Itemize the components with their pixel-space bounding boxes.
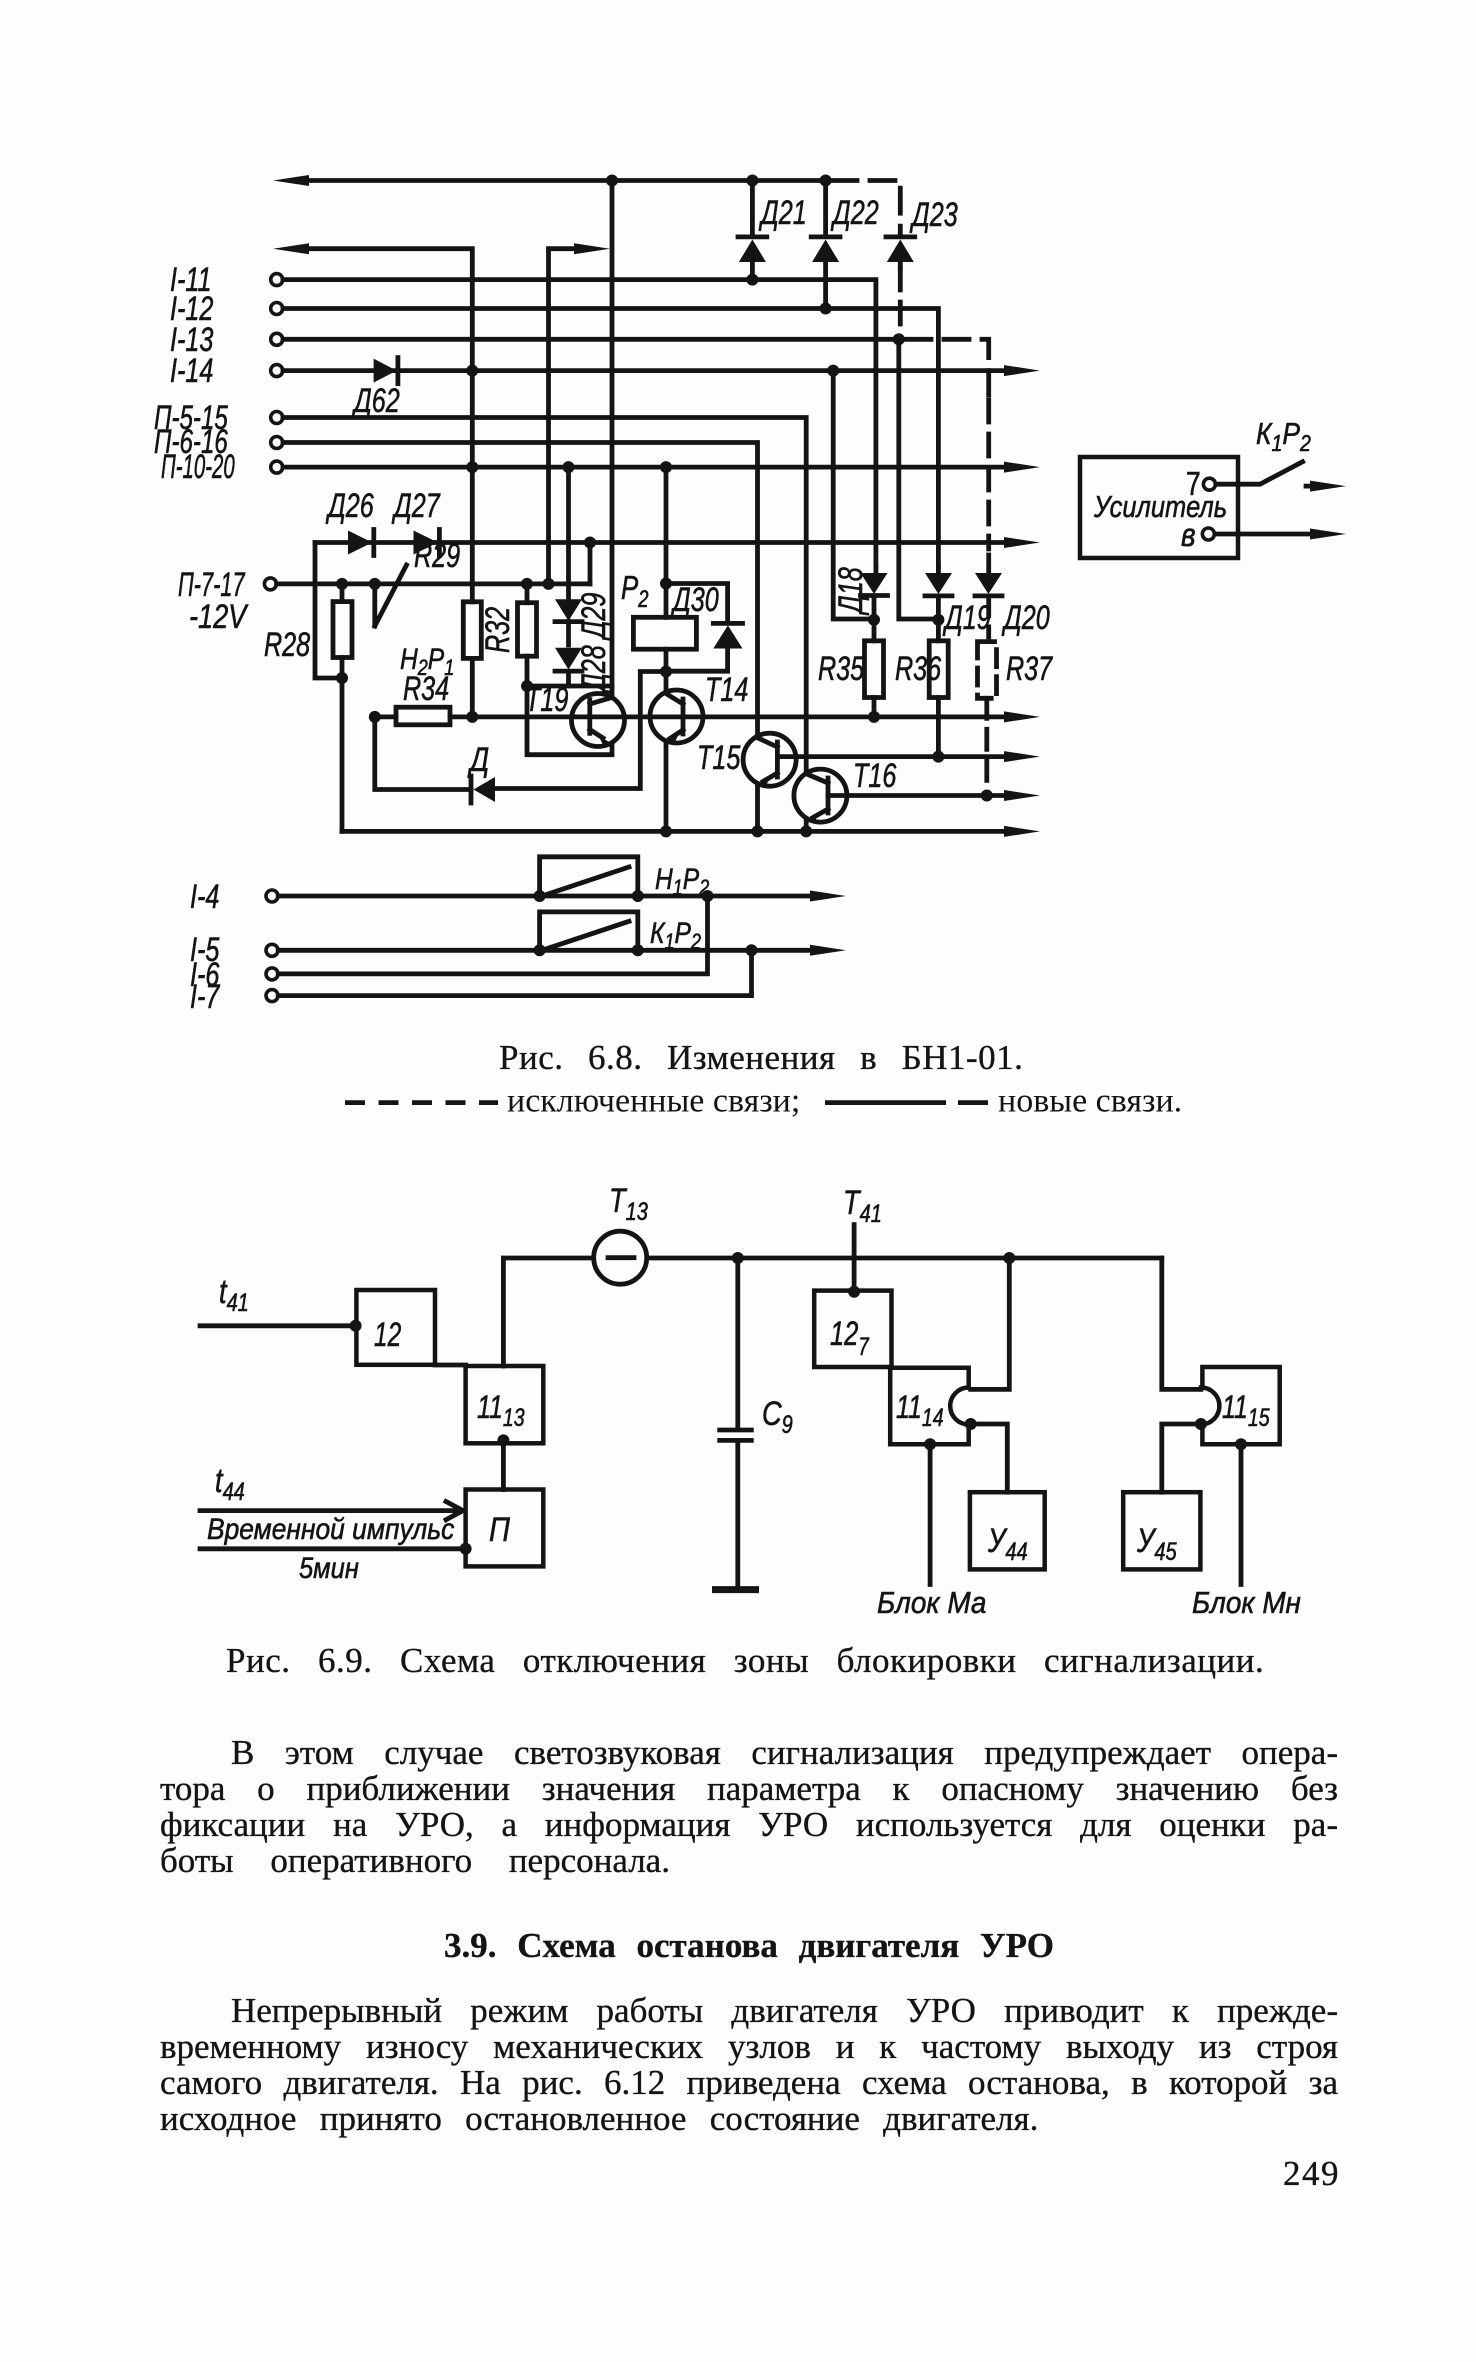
node top bus / D21 junction <box>746 175 758 187</box>
block Y44 <box>970 1492 1045 1569</box>
terminal P-7-17 <box>264 578 276 590</box>
switch blade H1P2 <box>545 867 629 895</box>
block 11-14 <box>890 1368 969 1444</box>
svg-text:I-7: I-7 <box>190 978 221 1016</box>
node P-7-17 / arrow column <box>543 578 555 590</box>
diode D23 (excluded link, dashed leads) <box>886 236 915 269</box>
legend solid sample (new links) <box>825 1100 946 1105</box>
transistor T19 <box>572 694 625 747</box>
page number <box>1283 2156 1340 2192</box>
svg-text:К1Р2: К1Р2 <box>1256 417 1311 456</box>
terminal I-6 <box>266 968 278 980</box>
node block 11-15 bottom <box>1235 1438 1247 1450</box>
node D19 bottom / R36 <box>932 614 944 626</box>
capacitor C9 <box>720 1264 752 1590</box>
svg-text:У45: У45 <box>1136 1521 1177 1565</box>
wire P-6-16 row to T15 collector column <box>283 443 758 735</box>
wire I-14 branch down to D18 bottom node <box>833 376 868 619</box>
terminal I-12 <box>271 303 283 315</box>
node I-12 / D22 <box>820 303 832 315</box>
terminal pin 7 <box>1203 478 1215 490</box>
svg-text:Блок Мн: Блок Мн <box>1192 1586 1301 1621</box>
node block 11-14 bottom <box>924 1438 936 1450</box>
node contact H1P2 right <box>632 890 644 902</box>
svg-text:У44: У44 <box>987 1521 1028 1565</box>
transistor T14 <box>650 690 703 743</box>
svg-text:t41: t41 <box>219 1272 249 1316</box>
wire P-7-17 row <box>277 582 590 587</box>
node base row / R34 left <box>369 711 381 723</box>
svg-text:-12V: -12V <box>189 597 249 636</box>
svg-text:R36: R36 <box>895 650 941 688</box>
left frame wire from D26 row down to R28 bottom <box>315 543 336 679</box>
wire to block Ma <box>928 1450 933 1585</box>
svg-text:127: 127 <box>830 1316 869 1361</box>
block 11-15 bubble <box>1201 1388 1220 1425</box>
svg-text:t44: t44 <box>215 1461 245 1505</box>
node R32 bottom <box>521 680 533 692</box>
switch H2P1 <box>375 565 407 626</box>
wire R28 bottom down to ground rail <box>340 684 345 831</box>
node bus / C9 <box>732 1252 744 1264</box>
svg-text:Р2: Р2 <box>621 570 649 613</box>
wire R32 bottom node to T19 collector column <box>533 684 612 689</box>
diode D28 <box>566 622 571 645</box>
svg-text:Д23: Д23 <box>909 196 958 234</box>
svg-text:R28: R28 <box>264 626 310 664</box>
svg-text:Временной импульс: Временной импульс <box>207 1511 454 1545</box>
terminal pin 8 <box>1202 528 1214 540</box>
diode D20 (dashed column) <box>986 555 991 571</box>
resistor R34 <box>396 707 450 725</box>
heading 3.9 <box>160 1928 1338 1964</box>
svg-text:1113: 1113 <box>477 1390 525 1431</box>
caption fig 6.9 <box>226 1643 1264 1679</box>
svg-text:Д19: Д19 <box>942 599 991 637</box>
wire T14 emitter to rail <box>664 741 669 825</box>
block 11-15 <box>1202 1367 1279 1444</box>
wire P2 column <box>664 473 669 617</box>
wire T15 collector row with right arrow <box>777 754 1006 759</box>
wire I-13 dashed branch to D20 column <box>906 339 989 395</box>
wire I-13 row solid part <box>283 337 899 342</box>
node time pulse at P block <box>460 1543 472 1555</box>
node contact K1P2 left <box>534 944 546 956</box>
wire T19 collector column from top bus <box>610 186 615 698</box>
svg-text:П-10-20: П-10-20 <box>161 448 235 486</box>
svg-text:Н2Р1: Н2Р1 <box>400 642 454 681</box>
wire T19 emitter loop <box>527 692 612 755</box>
wire block 12 to block 11-13 <box>435 1363 466 1368</box>
caption fig 6.8 <box>499 1040 1023 1076</box>
svg-text:К1Р2: К1Р2 <box>650 916 701 955</box>
node top bus / D22 junction <box>820 175 832 187</box>
node base row / R29 bottom <box>466 711 478 723</box>
wire I-6 row rising to I-4 output <box>278 902 707 974</box>
wire I-5 row with arrow <box>278 948 812 953</box>
svg-text:Д18: Д18 <box>832 567 870 616</box>
svg-text:Усилитель: Усилитель <box>1093 490 1227 525</box>
base row T19/T14 with right arrow <box>375 715 1006 720</box>
wire T16 emitter to rail <box>804 820 809 825</box>
wire 11-13 to P block <box>501 1443 506 1489</box>
node P2 bottom <box>660 666 672 678</box>
svg-text:Блок Ма: Блок Ма <box>877 1586 986 1621</box>
svg-text:С9: С9 <box>762 1394 793 1438</box>
svg-text:Д20: Д20 <box>1001 599 1050 637</box>
node P-10-20 / P2 column <box>660 461 672 473</box>
wire top bus with left arrow <box>307 178 826 183</box>
wire short right-arrow output from amplifier column <box>549 249 577 578</box>
diode D22 <box>811 181 840 309</box>
ground rail row with right arrow <box>342 829 1006 834</box>
arrowheads right side rows <box>1004 365 1040 376</box>
svg-text:Д: Д <box>467 740 489 779</box>
terminal P-6-16 <box>271 437 283 449</box>
diode D21 <box>738 181 767 280</box>
wire time pulse input <box>200 1546 466 1551</box>
wire I-4 row with arrow <box>278 894 812 899</box>
paragraph 2 <box>160 1993 1338 2137</box>
wire 11-14 upper to bus <box>971 1264 1010 1389</box>
wire 11-14 lower to Y44 <box>971 1424 1008 1492</box>
wire right stub from P2 node to D30 <box>666 584 728 622</box>
terminal I-7 <box>266 990 278 1002</box>
terminal I-13 <box>271 333 283 345</box>
node contact H1P2 left <box>534 890 546 902</box>
svg-text:1115: 1115 <box>1222 1390 1270 1431</box>
block P <box>466 1490 544 1567</box>
wire from P2 bottom node left and down to diode D row <box>497 672 660 789</box>
resistor R32 <box>525 589 530 680</box>
svg-text:R35: R35 <box>818 650 864 688</box>
node P-7-17 / R32 <box>521 578 533 590</box>
node I-11 / D21 <box>746 274 758 286</box>
node P-10-20 / D29 chain <box>563 461 575 473</box>
diode D27 <box>414 531 438 555</box>
wire bus corner down to 11-15 <box>1162 1258 1201 1389</box>
diode D29 <box>566 473 571 597</box>
svg-text:Т19: Т19 <box>525 681 569 719</box>
svg-text:в: в <box>1181 517 1196 554</box>
svg-text:исключенные связи;: исключенные связи; <box>507 1083 800 1120</box>
node contact K1P2 right <box>632 944 644 956</box>
wire second arrow line to I-14 column <box>307 249 472 602</box>
node rail / T16 emitter <box>800 825 812 837</box>
node 11-15 lower <box>1195 1418 1207 1430</box>
resistor R35 <box>872 625 877 711</box>
resistor R37 (dashed) <box>978 642 997 699</box>
arrowheads top-left <box>273 175 309 186</box>
transistor T16 <box>794 769 847 822</box>
diode D18 <box>874 567 879 571</box>
terminal P-10-20 <box>271 461 283 473</box>
svg-text:I-4: I-4 <box>190 878 219 916</box>
node P-10-20 / second-arrow column <box>466 461 478 473</box>
resistor R28 <box>340 589 345 672</box>
resistor R29 on amplifier column <box>470 658 475 711</box>
terminal I-14 <box>271 365 283 377</box>
wire top bus dashed segment to D23 <box>832 181 900 233</box>
diode D62 on I-14 row <box>374 359 397 383</box>
svg-text:R29: R29 <box>414 537 460 575</box>
svg-text:Д30: Д30 <box>670 581 719 619</box>
wire t44 input with open arrow <box>200 1502 463 1520</box>
block Y45 <box>1123 1492 1200 1569</box>
node block 11-13 bottom <box>497 1434 509 1446</box>
wire I-7 row rising to I-5 output <box>278 956 751 995</box>
wire pin 7 and switch blade K1P2 <box>1216 462 1303 485</box>
node R35 bottom / T14 row <box>868 711 880 723</box>
node t41 at block 12 <box>350 1320 362 1332</box>
switch blade K1P2 <box>545 921 629 949</box>
svg-text:П: П <box>489 1510 510 1549</box>
svg-text:Т15: Т15 <box>697 739 741 777</box>
svg-text:Д21: Д21 <box>758 194 806 232</box>
wire T41 input <box>852 1225 857 1292</box>
node top bus / T19 collector column junction <box>606 175 618 187</box>
diode D19 <box>936 567 941 571</box>
node bus / 11-14 riser <box>1003 1252 1015 1264</box>
svg-text:I-14: I-14 <box>170 352 213 390</box>
node R36 bottom / T15 row <box>932 751 944 763</box>
wire 11-15 lower to Y45 <box>1162 1424 1201 1492</box>
terminal I-4 <box>266 890 278 902</box>
node I-14 / D18 branch <box>827 365 839 377</box>
svg-text:Т41: Т41 <box>843 1183 882 1227</box>
svg-text:1114: 1114 <box>896 1390 944 1431</box>
svg-text:Д26: Д26 <box>325 487 374 525</box>
block 11-13 <box>466 1366 544 1443</box>
svg-text:5мин: 5мин <box>299 1551 359 1584</box>
node R28 bottom <box>336 672 348 684</box>
legend dash before new links text <box>958 1100 988 1105</box>
svg-text:R37: R37 <box>1006 650 1053 688</box>
arrow output pin 7 <box>1306 484 1315 489</box>
wire t41 input <box>200 1323 356 1328</box>
svg-text:Н1Р2: Н1Р2 <box>655 862 709 901</box>
svg-text:Д27: Д27 <box>391 487 440 525</box>
node D26 row / P-7-17 jog <box>584 537 596 549</box>
node R37 column / T16 row <box>981 790 993 802</box>
contact K1P2 bypass loop <box>540 912 638 950</box>
svg-text:Д22: Д22 <box>830 194 879 232</box>
node I-13 / D23 column <box>893 333 905 345</box>
svg-text:Т13: Т13 <box>609 1181 648 1225</box>
wire jog from D26 row down to P-7-17 row end <box>588 548 593 584</box>
block 11-14 bubble <box>950 1388 969 1425</box>
contact H1P2 bypass loop <box>540 857 638 896</box>
transistor T15 <box>743 733 796 786</box>
node rail / T15 emitter <box>752 825 764 837</box>
svg-text:Д28 Д29: Д28 Д29 <box>575 592 613 693</box>
wire I-13 column down to D19 bottom node <box>899 345 932 619</box>
wire P2 bottom node to T14 collector <box>664 678 669 693</box>
amplifier box <box>1080 457 1238 558</box>
block 12 <box>356 1290 435 1365</box>
node P2 top / right P-7-17 stub <box>660 578 672 590</box>
wire T16 collector row with right arrow <box>828 793 1006 798</box>
node P-7-17 / H2P1 <box>369 578 381 590</box>
pulse generator T13 <box>594 1231 647 1284</box>
diode D26 <box>348 531 372 555</box>
svg-text:Т16: Т16 <box>853 757 897 795</box>
wire I-12 row to D19 column <box>283 309 938 568</box>
wire pin 8 output arrow <box>1215 532 1312 537</box>
node 11-14 lower <box>965 1418 977 1430</box>
wire P-10-20 row with right arrow <box>283 465 1006 470</box>
paragraph 1 <box>160 1735 1338 1879</box>
fig 6.9: main bus <box>503 1258 1161 1366</box>
terminal P-5-15 <box>271 412 283 424</box>
block 12-7 <box>814 1291 891 1367</box>
node I-14 / second-arrow column <box>466 365 478 377</box>
legend dashed sample (excluded links) <box>345 1100 498 1105</box>
resistor R36 <box>936 625 941 750</box>
svg-text:R32: R32 <box>479 607 517 653</box>
node D18 bottom / R35 <box>868 614 880 626</box>
terminal I-11 <box>271 274 283 286</box>
relay coil P2 <box>633 617 696 649</box>
terminal I-5 <box>266 944 278 956</box>
wire to block Mn <box>1239 1450 1244 1585</box>
wire T15 emitter to rail <box>755 784 760 825</box>
wire I-11 row to D18 column <box>283 280 876 567</box>
svg-text:Д62: Д62 <box>351 382 400 420</box>
node rail / T14 emitter <box>660 825 672 837</box>
wire D26 row full with right arrow <box>315 540 1006 545</box>
node I-5 / I-7 riser <box>746 944 758 956</box>
node P-7-17 / R28 <box>336 578 348 590</box>
diode D30 <box>713 621 742 626</box>
node T41 at block 12-7 <box>848 1286 860 1298</box>
svg-text:Т14: Т14 <box>705 671 748 709</box>
svg-text:12: 12 <box>374 1316 402 1354</box>
wire I-14 row with right arrow <box>283 368 1006 373</box>
diode D (to R34 node) <box>469 776 474 803</box>
node I-4 / I-6 riser <box>702 890 714 902</box>
wire P-5-15 row to T16 collector column <box>283 418 806 772</box>
svg-text:новые связи.: новые связи. <box>998 1083 1182 1120</box>
